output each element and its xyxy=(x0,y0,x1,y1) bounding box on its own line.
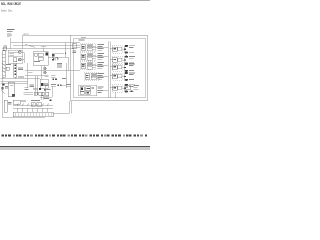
svg-text:SOL,: SOL, xyxy=(1,2,6,6)
svg-text:Schem.: Schem. xyxy=(1,9,7,13)
svg-text:RUN: RUN xyxy=(8,2,13,6)
svg-text:CIRCUIT: CIRCUIT xyxy=(14,2,22,6)
svg-text:Circ.: Circ. xyxy=(8,9,13,13)
